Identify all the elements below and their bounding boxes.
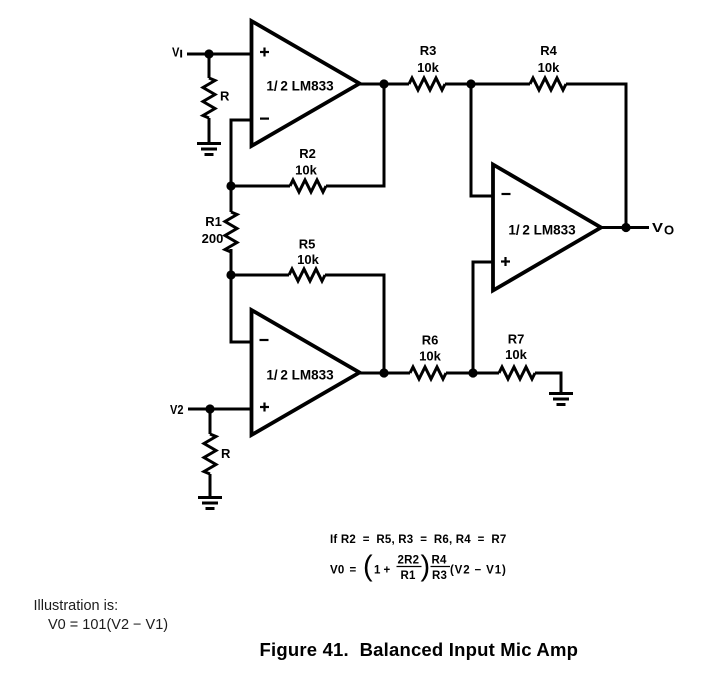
svg-text:R3: R3 [420,43,437,58]
svg-text:10k: 10k [538,60,560,75]
svg-text:1/ 2 LM833: 1/ 2 LM833 [266,79,334,94]
svg-text:10k: 10k [417,60,439,75]
svg-text:10k: 10k [297,252,319,267]
svg-text:V0 = 101(V2 − V1): V0 = 101(V2 − V1) [48,617,168,633]
svg-text:+: + [384,565,391,577]
svg-text:R2: R2 [299,146,316,161]
svg-text:R6: R6 [422,333,439,348]
svg-text:R4: R4 [540,43,557,58]
svg-text:10k: 10k [505,347,527,362]
svg-text:V: V [172,45,180,60]
svg-text:1/ 2 LM833: 1/ 2 LM833 [508,223,576,238]
svg-text:(V2 − V1): (V2 − V1) [450,565,506,577]
svg-text:10k: 10k [295,163,317,178]
svg-text:V: V [652,220,663,235]
svg-text:R: R [221,446,231,461]
svg-text:): ) [421,551,431,583]
svg-text:If R2 = R5, R3 = R6, R4 =: If R2 = R5, R3 = R6, R4 = R7 [330,534,507,546]
svg-text:Figure 41. Balanced Input Mic: Figure 41. Balanced Input Mic Amp [260,639,579,660]
svg-text:O: O [664,223,674,238]
svg-text:R7: R7 [508,332,525,347]
svg-text:R: R [220,89,230,104]
svg-text:V2: V2 [170,402,184,417]
svg-text:Illustration is:: Illustration is: [34,598,119,614]
svg-text:R3: R3 [432,570,447,582]
svg-text:V0: V0 [330,565,344,577]
svg-text:R1: R1 [401,570,417,582]
svg-text:200: 200 [202,231,224,246]
svg-text:1/ 2 LM833: 1/ 2 LM833 [266,368,334,383]
svg-text:R4: R4 [432,555,448,567]
svg-text:2R2: 2R2 [398,555,420,567]
svg-text:R5: R5 [299,237,316,252]
svg-text:1: 1 [374,565,381,577]
svg-text:10k: 10k [419,349,441,364]
svg-text:(: ( [363,551,373,583]
svg-text:=: = [350,565,357,577]
svg-text:R1: R1 [205,214,222,229]
